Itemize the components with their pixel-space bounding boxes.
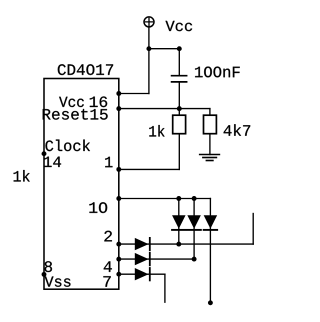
label pin 16 — [90, 96, 107, 107]
node column B / pin4 row — [192, 257, 197, 262]
node column A top — [176, 196, 181, 201]
label 100nF — [195, 67, 240, 78]
node column B top — [192, 196, 197, 201]
node pin 1 — [116, 167, 121, 172]
wire diode column B — [193, 199, 195, 260]
node pin 10 — [116, 196, 121, 201]
label Clock — [46, 140, 91, 152]
node pin 15 — [116, 106, 121, 111]
IC box CD4017 — [44, 79, 119, 290]
label pin 7 — [103, 276, 110, 287]
label pin 8 — [45, 261, 52, 272]
wire 1k bottom lead — [178, 134, 180, 170]
diode D5 (right, pin4 row) — [135, 253, 150, 265]
wire pin 2 row — [119, 243, 253, 245]
diode D3 (down) — [204, 215, 218, 230]
Vcc supply symbol — [144, 17, 154, 27]
label pin Vcc — [59, 97, 84, 107]
label pin 4 — [104, 261, 112, 272]
label CD4017 — [58, 64, 113, 75]
wire pin 10 row — [119, 198, 211, 200]
diode D2 (down) — [187, 215, 201, 230]
wire diode column A — [178, 199, 180, 245]
capacitor C1 100nF bottom plate — [172, 81, 187, 83]
wire pin 1 row — [119, 168, 180, 170]
node pin 2 — [116, 242, 121, 247]
node RC junction — [177, 106, 182, 111]
wire pin 7 row — [119, 273, 165, 275]
wire capacitor top lead — [178, 49, 180, 75]
node pin 16 — [116, 91, 121, 96]
node column C end — [208, 300, 213, 305]
wire capacitor bottom lead — [178, 83, 180, 109]
wire Vcc branch to capacitor — [149, 48, 179, 50]
wire pin 4 row — [119, 258, 194, 260]
diode D4 (right, pin2 row) — [135, 238, 150, 250]
label Vcc supply — [166, 21, 193, 31]
wire 4k7 top lead — [209, 109, 211, 116]
resistor R2 4k7 — [204, 115, 217, 134]
label 1k res — [149, 125, 164, 136]
wire right stub up — [252, 214, 254, 245]
wire Vcc down to pin16 row — [148, 27, 150, 93]
ground — [200, 155, 220, 161]
wire diode column C — [209, 199, 211, 303]
node Vcc branch — [146, 46, 151, 51]
node column A / pin2 row — [176, 242, 181, 247]
wire pin 16 to Vcc — [119, 93, 149, 95]
wire 1k top lead — [178, 109, 180, 116]
label pin 10 — [89, 202, 107, 213]
capacitor C1 100nF top plate — [172, 75, 187, 77]
label Vss — [45, 277, 71, 287]
node pin 4 — [116, 257, 121, 262]
node cap top corner — [177, 46, 182, 51]
label pin 1 — [105, 157, 112, 167]
label Reset15 — [43, 109, 108, 120]
wire pin 15 node row — [119, 108, 210, 110]
node pin 7 — [116, 272, 121, 277]
label pin 2 — [104, 231, 112, 242]
wire 4k7 bottom lead — [209, 134, 211, 155]
node pin 8 Vss — [42, 272, 47, 277]
label pin 14 — [44, 157, 61, 167]
diode D1 (down) — [172, 215, 186, 230]
label 1k left — [14, 170, 30, 181]
label 4k7 — [224, 124, 251, 135]
wire pin 7 down — [164, 274, 166, 302]
resistor R1 1k — [173, 115, 186, 134]
diode D6 (right, pin7 row) — [135, 268, 150, 280]
node clock pin 14 — [42, 151, 47, 156]
